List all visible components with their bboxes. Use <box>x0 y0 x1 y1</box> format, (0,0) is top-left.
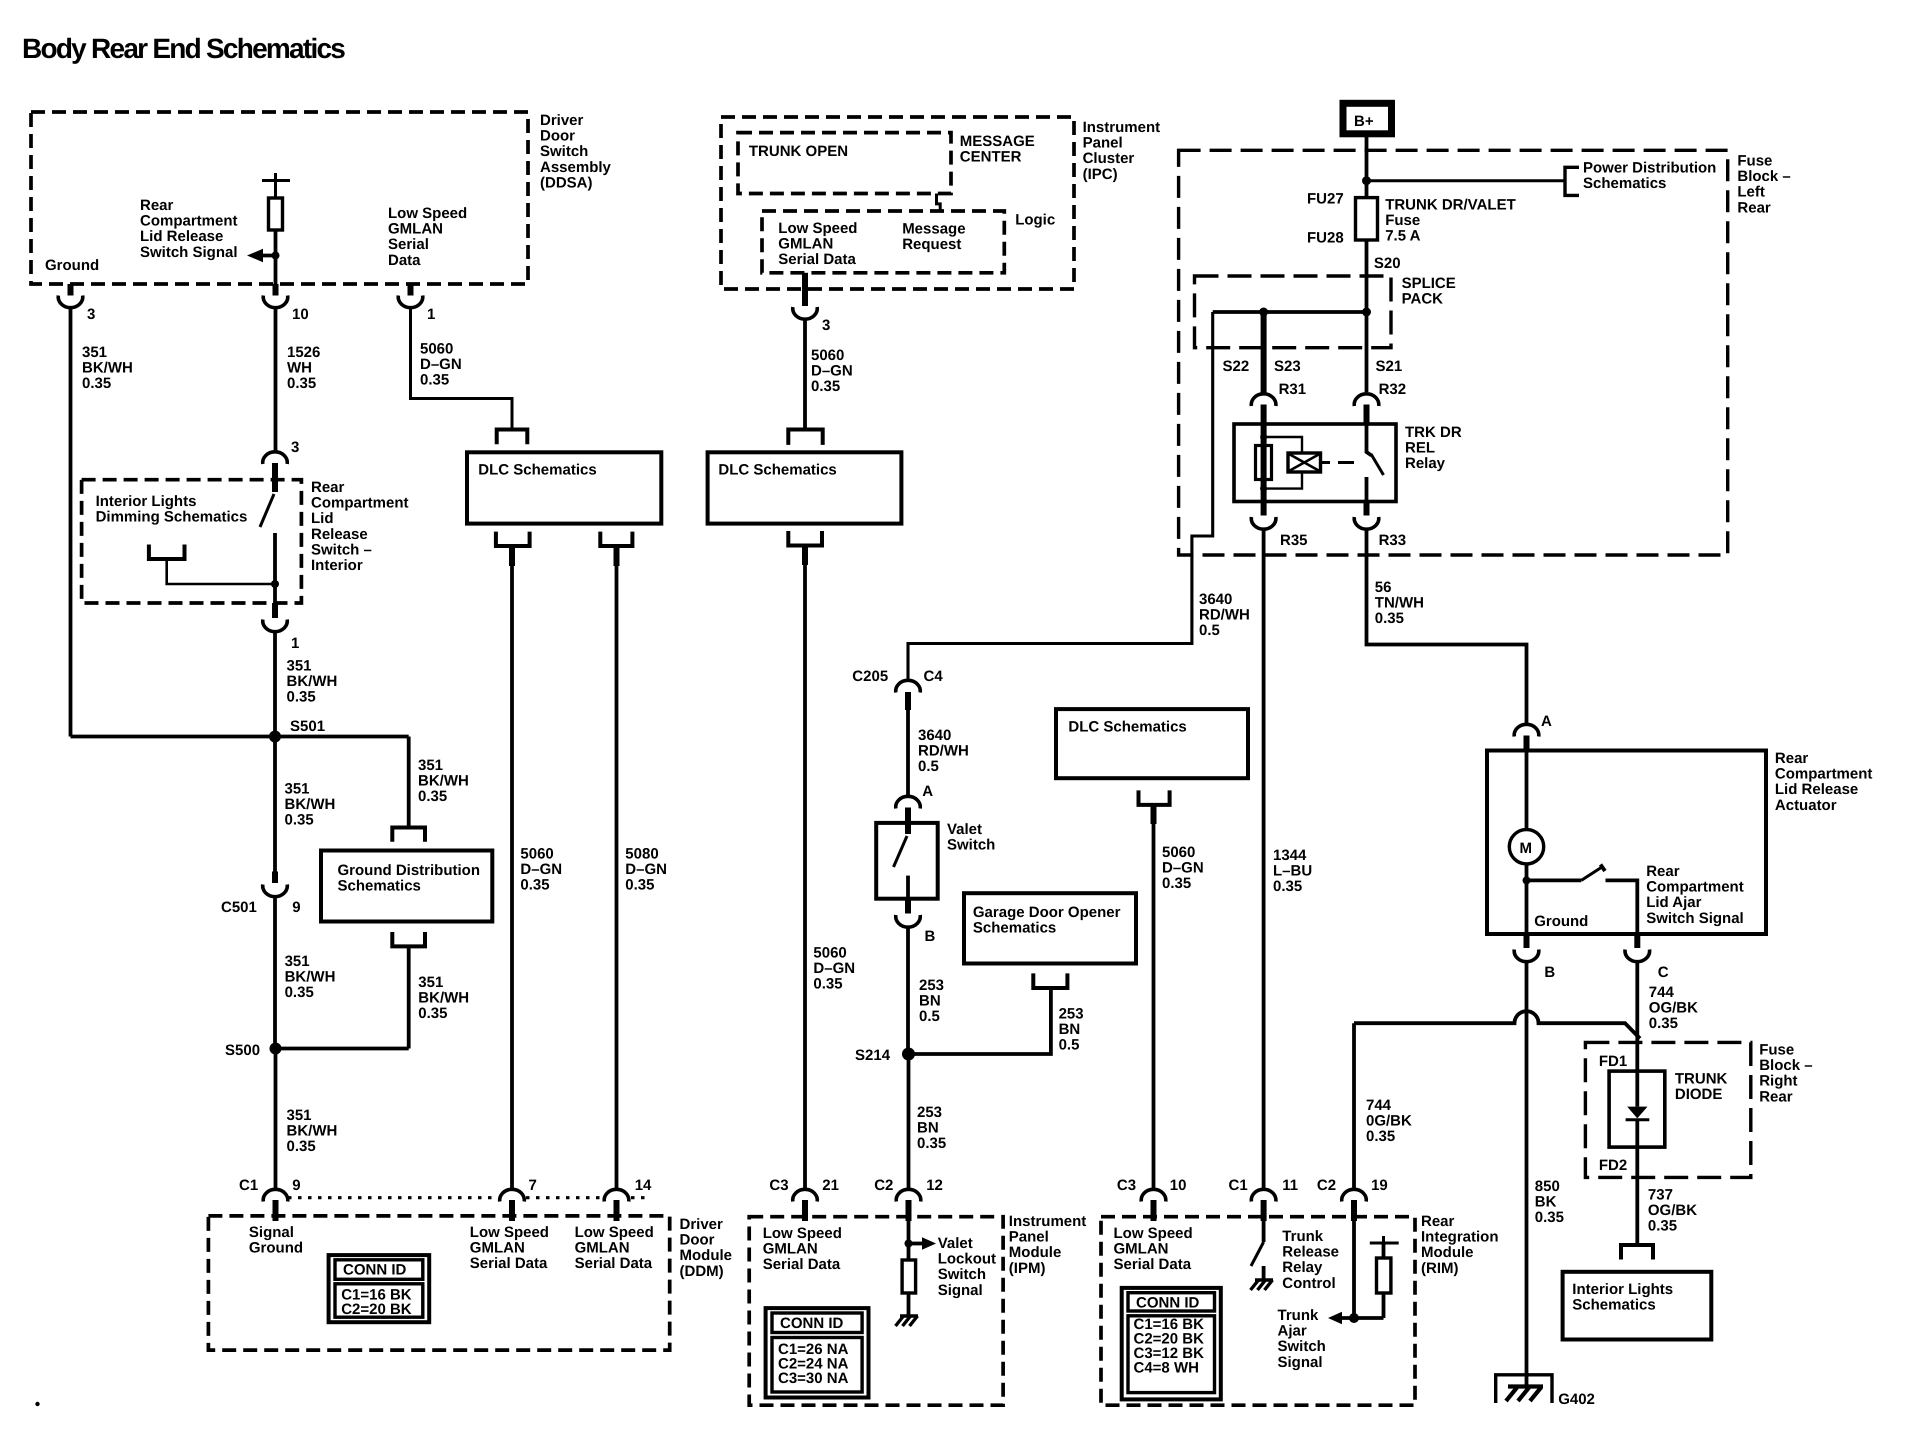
svg-text:A: A <box>1541 713 1552 730</box>
svg-text:C205: C205 <box>852 668 888 685</box>
svg-text:GMLAN: GMLAN <box>470 1240 525 1257</box>
relay coil X-box symbol <box>1288 453 1321 472</box>
svg-text:DIODE: DIODE <box>1675 1086 1723 1103</box>
svg-text:Ground: Ground <box>45 257 99 274</box>
svg-text:C2: C2 <box>874 1177 893 1194</box>
svg-text:RD/WH: RD/WH <box>918 743 969 760</box>
svg-text:Switch Signal: Switch Signal <box>140 244 238 261</box>
svg-text:FD1: FD1 <box>1599 1053 1627 1070</box>
svg-text:D–GN: D–GN <box>520 861 562 878</box>
connector C3 pin 21 (IPM) <box>793 1189 818 1201</box>
wire S500 horizontal <box>276 1047 409 1051</box>
wire S214 to IPM pin 12 <box>907 1054 911 1189</box>
svg-text:S23: S23 <box>1274 358 1301 375</box>
node trunk ajar <box>1349 1313 1359 1323</box>
svg-text:Switch: Switch <box>540 143 588 160</box>
connector C1 pin 9 (DDM) <box>263 1189 288 1201</box>
svg-text:Interior: Interior <box>311 557 363 574</box>
svg-text:CONN ID: CONN ID <box>343 1262 407 1279</box>
svg-text:744: 744 <box>1366 1097 1392 1114</box>
wire resistor to ground <box>907 1293 911 1316</box>
switch lower contact wire <box>273 533 277 603</box>
wire 5060 D-GN IPC to DLC2 <box>803 320 807 430</box>
svg-text:1526: 1526 <box>287 344 320 361</box>
box: DLC Schematics (left) <box>467 452 661 523</box>
svg-text:BK/WH: BK/WH <box>287 673 338 690</box>
connector A (actuator) <box>1514 724 1539 736</box>
svg-text:0.35: 0.35 <box>1366 1128 1395 1145</box>
wire 5060 D-GN to DLC1 <box>411 306 513 430</box>
svg-text:Right: Right <box>1759 1073 1797 1090</box>
svg-text:S500: S500 <box>225 1042 260 1059</box>
svg-text:850: 850 <box>1535 1178 1560 1195</box>
connector B (actuator) <box>1524 934 1530 948</box>
relay coil loop <box>1264 437 1302 489</box>
wire S501 horizontal <box>71 735 409 739</box>
svg-text:FU27: FU27 <box>1307 191 1344 208</box>
relay coil resistor <box>1256 446 1272 480</box>
svg-text:5060: 5060 <box>811 347 844 364</box>
bracket bottom of DLC2 <box>788 531 822 546</box>
svg-text:Integration: Integration <box>1421 1229 1499 1246</box>
diode symbol <box>1635 1071 1639 1107</box>
wire DLC1 to DDM pin 7 <box>509 546 515 566</box>
box: Rear Integration Module (RIM) <box>1101 1217 1415 1406</box>
box: Logic (IPC inner) <box>762 211 1004 273</box>
svg-text:0.35: 0.35 <box>287 375 316 392</box>
svg-text:Lid Ajar: Lid Ajar <box>1646 894 1701 911</box>
svg-text:3640: 3640 <box>1199 591 1232 608</box>
svg-text:0.35: 0.35 <box>418 788 447 805</box>
svg-text:351: 351 <box>287 658 312 675</box>
motor M <box>1525 751 1529 830</box>
svg-text:Signal: Signal <box>1278 1354 1323 1371</box>
wire 351 BK/WH to S501 <box>273 633 277 737</box>
svg-text:11: 11 <box>1282 1177 1298 1194</box>
svg-text:S22: S22 <box>1223 358 1250 375</box>
connector R32 <box>1354 394 1379 406</box>
svg-text:12: 12 <box>926 1177 943 1194</box>
relay coil wire (through resistor) <box>1261 424 1267 502</box>
wire 3640 to valet switch <box>906 710 910 796</box>
svg-text:Low Speed: Low Speed <box>778 220 857 237</box>
svg-text:0.35: 0.35 <box>1162 875 1191 892</box>
connector pin 10 (DDSA) <box>273 284 279 296</box>
svg-text:744: 744 <box>1649 984 1675 1001</box>
svg-text:5080: 5080 <box>625 846 658 863</box>
box: Ground Distribution Schematics <box>321 851 492 922</box>
svg-text:D–GN: D–GN <box>813 960 855 977</box>
svg-text:CENTER: CENTER <box>960 149 1022 166</box>
svg-text:FD2: FD2 <box>1599 1157 1627 1174</box>
bracket top of interior lights schematics box <box>1621 1245 1653 1260</box>
connector C501 pin 9 <box>272 872 278 884</box>
connector C (actuator) <box>1634 934 1640 948</box>
svg-text:Driver: Driver <box>540 112 584 129</box>
wire 744 branch to RIM pin 19 (with hop over 850 BK) <box>1354 1011 1640 1038</box>
svg-text:0.35: 0.35 <box>285 984 314 1001</box>
relay TRK DR REL box <box>1234 424 1396 502</box>
arrow: switch signal <box>258 254 276 258</box>
svg-text:L–BU: L–BU <box>1273 863 1312 880</box>
valet lockout switch signal arrow <box>907 1217 911 1261</box>
connector C1 pin 11 (RIM) <box>1251 1189 1276 1201</box>
svg-text:0.35: 0.35 <box>1649 1015 1678 1032</box>
svg-text:Release: Release <box>1282 1244 1339 1261</box>
connector C2 pin 12 (IPM) <box>896 1189 921 1201</box>
svg-text:WH: WH <box>287 360 312 377</box>
svg-text:D–GN: D–GN <box>625 861 667 878</box>
svg-text:1: 1 <box>291 635 299 652</box>
svg-text:0.35: 0.35 <box>625 877 654 894</box>
box: Interior Lights Schematics <box>1563 1272 1712 1340</box>
svg-text:Serial Data: Serial Data <box>470 1255 548 1272</box>
svg-text:Schematics: Schematics <box>338 878 421 895</box>
connector pin 3 (IPC) <box>802 273 808 306</box>
switch blade (lid release switch interior) <box>260 494 274 527</box>
svg-text:Module: Module <box>1009 1244 1062 1261</box>
wire DLC1 to DDM pin 14 <box>614 546 620 566</box>
svg-text:3640: 3640 <box>918 727 951 744</box>
svg-text:TRUNK OPEN: TRUNK OPEN <box>749 143 848 160</box>
svg-text:GMLAN: GMLAN <box>388 221 443 238</box>
svg-text:Rear: Rear <box>1737 199 1771 216</box>
svg-text:PACK: PACK <box>1402 291 1444 308</box>
wire DLC2 to IPM pin 21 <box>802 546 808 566</box>
svg-text:0.35: 0.35 <box>287 689 316 706</box>
connector pin 7 (DDM) <box>500 1189 525 1201</box>
svg-text:BN: BN <box>917 1120 939 1137</box>
connector R35 <box>1261 502 1267 516</box>
node S500 <box>270 1043 282 1055</box>
svg-text:Rear: Rear <box>140 197 174 214</box>
bracket bottom of garage door opener box <box>1033 973 1067 988</box>
svg-text:253: 253 <box>1059 1006 1084 1023</box>
svg-text:Door: Door <box>540 128 575 145</box>
svg-text:Schematics: Schematics <box>973 920 1056 937</box>
svg-text:Cluster: Cluster <box>1083 150 1135 167</box>
svg-text:B: B <box>925 928 936 945</box>
box: DLC Schematics (middle) <box>708 452 902 523</box>
svg-text:TRUNK DR/VALET: TRUNK DR/VALET <box>1385 197 1516 214</box>
svg-text:Schematics: Schematics <box>1583 175 1666 192</box>
svg-text:Serial Data: Serial Data <box>575 1255 653 1272</box>
svg-text:Module: Module <box>1421 1244 1474 1261</box>
node S23 tap <box>1259 308 1268 317</box>
svg-text:0.35: 0.35 <box>420 372 449 389</box>
svg-text:0.35: 0.35 <box>813 976 842 993</box>
node S21 tap <box>1362 308 1371 317</box>
svg-text:D–GN: D–GN <box>420 356 462 373</box>
wire 3640 RD/WH from splice S22 to C205 <box>908 312 1213 680</box>
svg-text:351: 351 <box>285 953 310 970</box>
svg-text:Left: Left <box>1737 184 1765 201</box>
svg-text:BK/WH: BK/WH <box>418 990 469 1007</box>
svg-text:R33: R33 <box>1379 532 1407 549</box>
svg-text:351: 351 <box>418 757 443 774</box>
resistor (valet lockout) <box>902 1260 916 1293</box>
svg-text:Lid Release: Lid Release <box>140 228 223 245</box>
svg-text:Low Speed: Low Speed <box>1114 1225 1193 1242</box>
svg-text:Switch –: Switch – <box>311 541 372 558</box>
svg-text:GMLAN: GMLAN <box>778 236 833 253</box>
svg-text:Switch: Switch <box>938 1266 986 1283</box>
svg-text:Logic: Logic <box>1015 212 1055 229</box>
svg-text:0.35: 0.35 <box>287 1138 316 1155</box>
wire S23 to R31 (bold) <box>1261 312 1267 394</box>
trunk diode box <box>1609 1071 1665 1147</box>
svg-text:C: C <box>1658 964 1669 981</box>
svg-text:R31: R31 <box>1279 381 1307 398</box>
svg-text:Body Rear End Schematics: Body Rear End Schematics <box>22 33 345 64</box>
svg-text:Interior Lights: Interior Lights <box>1572 1281 1673 1298</box>
wire pin 19 to trunk ajar node <box>1352 1217 1356 1319</box>
box: Rear Compartment Lid Release Actuator <box>1487 751 1766 935</box>
svg-text:0.35: 0.35 <box>285 812 314 829</box>
wire trunk open to logic <box>937 194 941 212</box>
box: Valet Switch <box>876 823 938 899</box>
box: splice pack <box>1195 276 1392 348</box>
svg-text:B: B <box>1544 964 1555 981</box>
svg-text:Valet: Valet <box>947 821 982 838</box>
trunk release relay control switch to ground <box>1262 1217 1266 1243</box>
svg-text:M: M <box>1520 840 1533 857</box>
svg-text:Driver: Driver <box>680 1216 724 1233</box>
svg-text:Serial Data: Serial Data <box>763 1256 841 1273</box>
svg-text:Valet: Valet <box>938 1235 973 1252</box>
svg-text:7.5 A: 7.5 A <box>1385 228 1420 245</box>
CONN ID table (IPM) <box>766 1308 869 1397</box>
svg-text:C2=20 BK: C2=20 BK <box>341 1301 412 1318</box>
connector C2 pin 19 (RIM) <box>1342 1189 1367 1201</box>
svg-text:Door: Door <box>680 1232 715 1249</box>
wire 737 OG/BK <box>1635 1147 1639 1245</box>
svg-text:3: 3 <box>291 439 299 456</box>
svg-text:0.35: 0.35 <box>418 1005 447 1022</box>
svg-text:0.35: 0.35 <box>520 877 549 894</box>
wire B+ down <box>1365 137 1369 198</box>
svg-text:C3=30 NA: C3=30 NA <box>778 1370 849 1387</box>
box: Driver Door Switch Assembly (DDSA) <box>31 112 528 284</box>
svg-text:0.35: 0.35 <box>811 378 840 395</box>
svg-text:14: 14 <box>635 1177 652 1194</box>
svg-text:Ajar: Ajar <box>1278 1323 1307 1340</box>
svg-text:BK/WH: BK/WH <box>285 796 336 813</box>
svg-text:Ground: Ground <box>1534 913 1588 930</box>
connector R31 <box>1251 394 1276 406</box>
svg-text:GMLAN: GMLAN <box>763 1241 818 1258</box>
svg-text:3: 3 <box>87 306 95 323</box>
box: Instrument Panel Module (IPM) <box>749 1217 1003 1406</box>
svg-text:Instrument: Instrument <box>1009 1213 1087 1230</box>
svg-text:(IPM): (IPM) <box>1009 1260 1046 1277</box>
svg-text:Rear: Rear <box>1646 863 1680 880</box>
svg-text:Fuse: Fuse <box>1737 153 1772 170</box>
svg-text:RD/WH: RD/WH <box>1199 607 1250 624</box>
svg-text:Interior Lights: Interior Lights <box>96 493 197 510</box>
svg-text:TRUNK: TRUNK <box>1675 1071 1728 1088</box>
svg-text:Instrument: Instrument <box>1083 119 1161 136</box>
connector pin 14 (DDM) <box>604 1189 629 1201</box>
svg-text:TN/WH: TN/WH <box>1375 595 1424 612</box>
svg-text:5060: 5060 <box>520 846 553 863</box>
node actuator switch tap <box>1523 876 1531 884</box>
wire S500 to C1 pin 9 <box>274 1049 278 1190</box>
svg-text:Compartment: Compartment <box>140 213 238 230</box>
svg-text:Release: Release <box>311 526 368 543</box>
svg-text:Relay: Relay <box>1405 455 1446 472</box>
ground G402 <box>1496 1375 1552 1403</box>
box: Driver Door Module (DDM) <box>208 1216 669 1350</box>
svg-text:SPLICE: SPLICE <box>1402 275 1456 292</box>
svg-text:56: 56 <box>1375 579 1392 596</box>
svg-text:0G/BK: 0G/BK <box>1366 1113 1412 1130</box>
svg-text:BK/WH: BK/WH <box>285 969 336 986</box>
svg-text:CONN ID: CONN ID <box>780 1315 844 1332</box>
connector 3 rear compartment lid release switch interior <box>263 452 288 464</box>
svg-text:9: 9 <box>292 1177 300 1194</box>
svg-text:Ground: Ground <box>249 1240 303 1257</box>
svg-text:5060: 5060 <box>1162 844 1195 861</box>
svg-text:Signal: Signal <box>249 1224 294 1241</box>
svg-text:DLC Schematics: DLC Schematics <box>718 462 836 479</box>
connector C3 pin 10 (RIM) <box>1141 1189 1166 1201</box>
wire 56 TN/WH from R33 to actuator A <box>1367 530 1527 724</box>
svg-text:Assembly: Assembly <box>540 159 612 176</box>
wire dimming tap <box>167 559 275 584</box>
bracket bottom left of DLC1 <box>496 532 530 546</box>
svg-text:351: 351 <box>285 781 310 798</box>
connector C205 C4 <box>896 680 921 692</box>
connector R33 <box>1364 502 1370 516</box>
svg-text:3: 3 <box>822 317 830 334</box>
svg-text:Data: Data <box>388 252 421 269</box>
wire 253 BN to S214 <box>906 928 910 1054</box>
svg-text:Control: Control <box>1282 1275 1335 1292</box>
svg-text:Trunk: Trunk <box>1278 1307 1319 1324</box>
svg-text:0.35: 0.35 <box>82 375 111 392</box>
wire DLC3 to RIM pin 10 <box>1151 805 1157 824</box>
svg-text:0.5: 0.5 <box>1059 1037 1080 1054</box>
svg-text:351: 351 <box>418 974 443 991</box>
svg-text:0.35: 0.35 <box>1535 1209 1564 1226</box>
connector A (valet switch) <box>896 796 921 808</box>
bracket bottom of ground distribution box <box>392 932 425 946</box>
svg-text:253: 253 <box>919 977 944 994</box>
svg-text:Serial Data: Serial Data <box>778 251 856 268</box>
svg-text:OG/BK: OG/BK <box>1648 1202 1697 1219</box>
svg-text:Rear: Rear <box>1759 1088 1793 1105</box>
bracket top of ground distribution box <box>392 828 425 842</box>
box: TRUNK OPEN <box>738 133 951 194</box>
svg-text:S20: S20 <box>1374 255 1401 272</box>
svg-text:(DDSA): (DDSA) <box>540 174 593 191</box>
wire fuse to splice pack <box>1365 240 1369 312</box>
svg-text:Module: Module <box>680 1247 733 1264</box>
lid ajar switch <box>1527 879 1582 883</box>
svg-text:7: 7 <box>529 1177 537 1194</box>
connector B (valet switch) <box>905 899 911 914</box>
svg-text:DLC Schematics: DLC Schematics <box>1068 719 1186 736</box>
svg-text:0.5: 0.5 <box>919 1008 940 1025</box>
box: DLC Schematics (right) <box>1056 709 1248 778</box>
wire 850 BK to G402 <box>1525 963 1529 1375</box>
svg-text:R35: R35 <box>1280 532 1308 549</box>
svg-text:253: 253 <box>917 1104 942 1121</box>
svg-text:REL: REL <box>1405 440 1435 457</box>
svg-text:1: 1 <box>427 306 435 323</box>
CONN ID table (DDM) <box>329 1255 430 1322</box>
wire C501 to S500 <box>273 898 277 1049</box>
svg-text:Schematics: Schematics <box>1572 1297 1655 1314</box>
bracket connector inside dimming box <box>149 545 185 560</box>
svg-text:351: 351 <box>82 344 107 361</box>
svg-text:Switch: Switch <box>1278 1338 1326 1355</box>
node B+ tap <box>1362 176 1371 185</box>
svg-text:BK: BK <box>1535 1194 1557 1211</box>
svg-text:1344: 1344 <box>1273 847 1307 864</box>
svg-text:DLC Schematics: DLC Schematics <box>478 462 596 479</box>
svg-text:5060: 5060 <box>420 341 453 358</box>
svg-text:B+: B+ <box>1354 113 1374 130</box>
relay switch <box>1367 424 1372 456</box>
svg-text:Block –: Block – <box>1759 1057 1812 1074</box>
box: Fuse Block - Right Rear <box>1585 1042 1750 1177</box>
svg-text:S21: S21 <box>1376 358 1403 375</box>
svg-text:0.35: 0.35 <box>1648 1218 1677 1235</box>
svg-text:Serial: Serial <box>388 236 429 253</box>
bracket top of DLC1 <box>497 430 528 445</box>
svg-text:Lockout: Lockout <box>938 1251 996 1268</box>
svg-text:D–GN: D–GN <box>811 363 853 380</box>
svg-text:Power Distribution: Power Distribution <box>1583 160 1716 177</box>
svg-text:Relay: Relay <box>1282 1259 1323 1276</box>
box: Instrument Panel Cluster (IPC) <box>721 117 1074 289</box>
svg-text:Block –: Block – <box>1737 168 1790 185</box>
svg-text:C501: C501 <box>221 899 257 916</box>
svg-text:Low Speed: Low Speed <box>763 1225 842 1242</box>
svg-text:Rear: Rear <box>1775 750 1809 767</box>
svg-text:21: 21 <box>822 1177 839 1194</box>
svg-text:351: 351 <box>287 1107 312 1124</box>
svg-text:BK/WH: BK/WH <box>82 360 133 377</box>
svg-text:Switch: Switch <box>947 837 995 854</box>
svg-text:Panel: Panel <box>1083 135 1123 152</box>
svg-text:S501: S501 <box>290 718 325 735</box>
svg-text:10: 10 <box>1170 1177 1187 1194</box>
connector pin 3 Ground (DDSA) <box>68 284 74 296</box>
bracket bottom right of DLC1 <box>600 532 632 546</box>
svg-text:0.35: 0.35 <box>917 1135 946 1152</box>
svg-text:0.5: 0.5 <box>1199 622 1220 639</box>
svg-text:Rear: Rear <box>311 479 345 496</box>
node S214 <box>902 1048 915 1061</box>
svg-text:C1: C1 <box>239 1177 258 1194</box>
svg-text:C1: C1 <box>1229 1177 1248 1194</box>
svg-text:5060: 5060 <box>813 945 846 962</box>
CONN ID table (RIM) <box>1122 1288 1221 1400</box>
svg-text:Low Speed: Low Speed <box>575 1224 654 1241</box>
svg-text:GMLAN: GMLAN <box>1114 1241 1169 1258</box>
svg-text:FU28: FU28 <box>1307 230 1344 247</box>
svg-text:Compartment: Compartment <box>1775 766 1873 783</box>
svg-text:Actuator: Actuator <box>1775 797 1837 814</box>
svg-text:Signal: Signal <box>938 1282 983 1299</box>
relay dashed actuating line <box>1321 461 1331 464</box>
svg-text:R32: R32 <box>1379 381 1407 398</box>
wire ground distribution to S500 <box>407 946 411 1048</box>
svg-text:(RIM): (RIM) <box>1421 1260 1459 1277</box>
